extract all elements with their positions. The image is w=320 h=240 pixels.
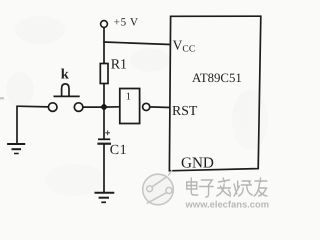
wire: branch to Vcc pin xyxy=(103,42,170,45)
svg-text:www.elecfans.com: www.elecfans.com xyxy=(185,198,270,209)
svg-text:C1: C1 xyxy=(110,143,127,158)
wire: junction down to C1 xyxy=(103,107,105,140)
watermark text 电子发烧友 (drawn strokes) xyxy=(187,178,267,197)
烧 xyxy=(234,181,252,196)
+5V supply terminal xyxy=(101,21,108,28)
svg-text:+5 V: +5 V xyxy=(114,17,139,29)
scan noise blobs xyxy=(6,16,268,196)
svg-text:RST: RST xyxy=(172,103,198,118)
capacitor C1 bottom plate xyxy=(97,143,111,145)
电 xyxy=(187,178,198,195)
pushbutton k : left contact circle xyxy=(48,103,57,112)
svg-text:GND: GND xyxy=(181,155,214,172)
wire: +5V terminal down to R1 xyxy=(103,28,105,64)
IC U2 AT89C51 box xyxy=(169,16,260,171)
ground (left) xyxy=(7,144,25,154)
wire: junction to inverter xyxy=(104,106,120,108)
wire: bubble to RST pin xyxy=(149,106,170,109)
resistor R1 xyxy=(100,64,108,84)
pushbutton k : bridge bar xyxy=(54,95,80,97)
svg-text:AT89C51: AT89C51 xyxy=(192,71,242,85)
友 xyxy=(254,178,267,196)
wire: R1 to junction node xyxy=(103,84,105,109)
inversion bubble xyxy=(143,103,150,110)
pushbutton k : actuator xyxy=(62,84,69,96)
wire: left horizontal to switch xyxy=(17,105,48,108)
inverter U1 (IEC "1" buffer box) xyxy=(120,89,140,124)
ground (bottom, below C1) xyxy=(95,193,115,203)
node junction dot xyxy=(101,104,107,110)
wire: left vertical down to ground xyxy=(16,106,18,145)
发 xyxy=(217,178,231,196)
wire: C1 to ground xyxy=(103,144,105,193)
scan smudge left edge xyxy=(0,97,4,100)
svg-text:R1: R1 xyxy=(111,58,127,73)
capacitor C1 plus sign xyxy=(105,131,110,136)
子 xyxy=(199,180,213,197)
pushbutton k : right contact circle xyxy=(74,103,83,112)
capacitor C1 top plate xyxy=(98,138,110,140)
watermark logo (elecfans) xyxy=(143,170,174,205)
svg-text:k: k xyxy=(61,67,70,83)
svg-text:1: 1 xyxy=(126,92,131,103)
wire: switch to junction xyxy=(83,106,104,108)
